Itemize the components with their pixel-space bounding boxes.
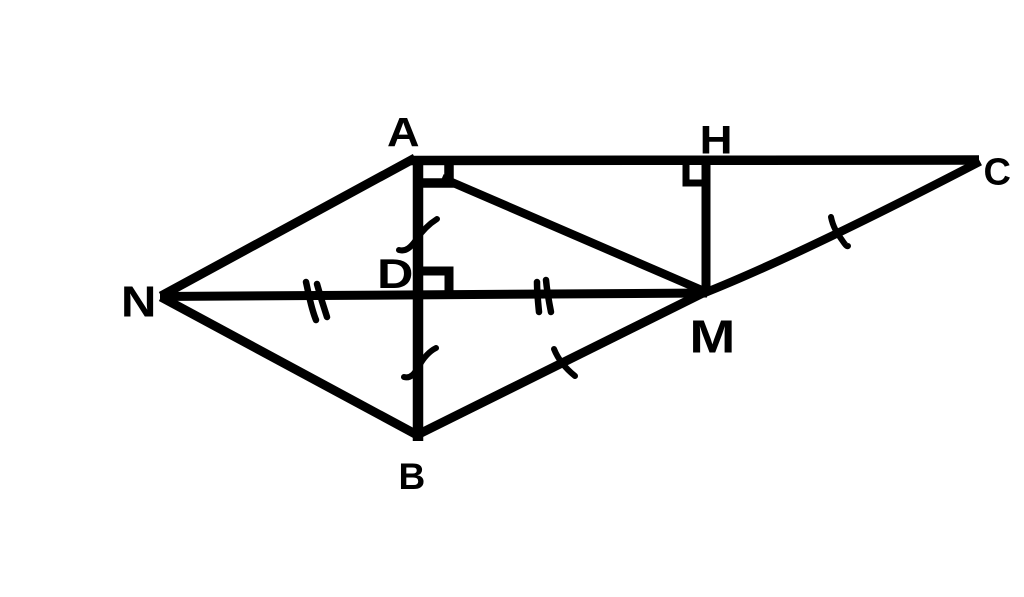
svg-text:A: A — [387, 110, 420, 156]
svg-text:B: B — [399, 456, 426, 497]
svg-text:N: N — [121, 277, 157, 326]
svg-text:M: M — [689, 311, 735, 363]
svg-text:D: D — [377, 250, 413, 297]
svg-text:C: C — [984, 152, 1011, 194]
svg-text:H: H — [700, 118, 733, 163]
